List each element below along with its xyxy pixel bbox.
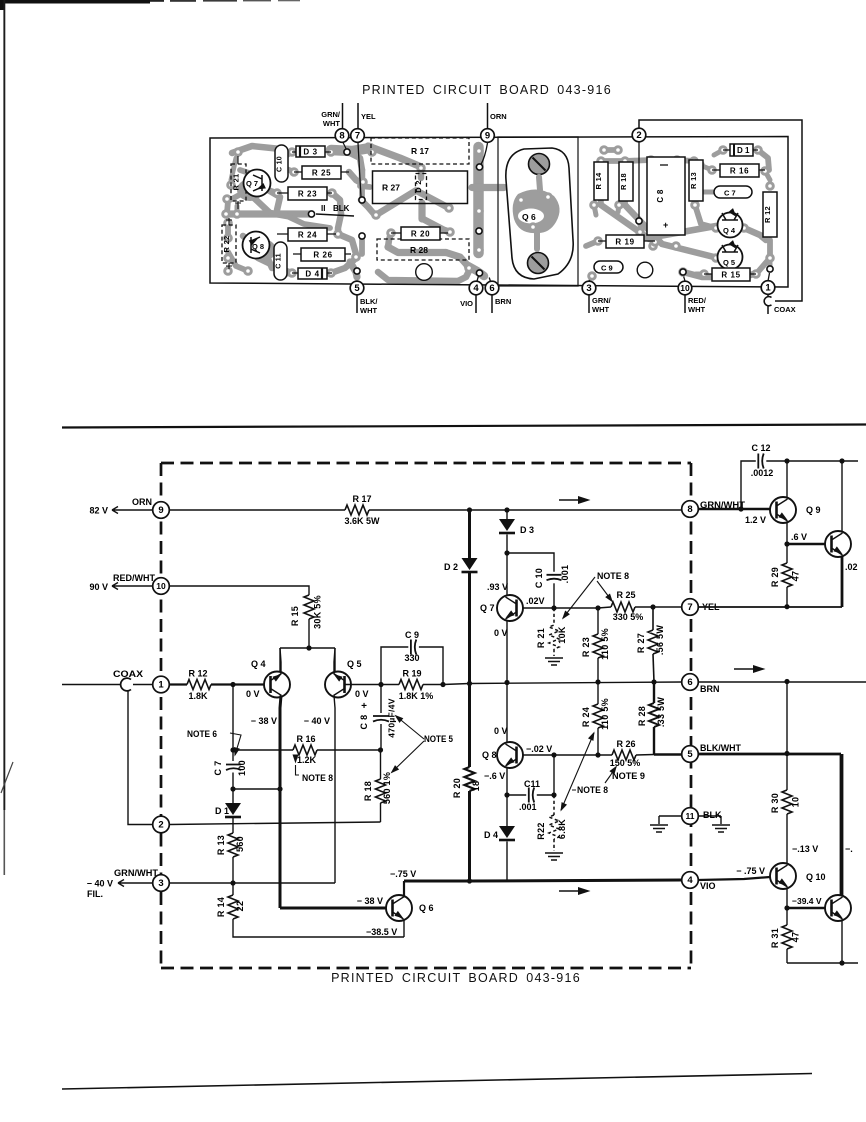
svg-text:R 23: R 23 — [298, 190, 317, 199]
svg-text:NOTE 8: NOTE 8 — [597, 571, 629, 581]
resistor R25 (pcb) — [302, 166, 341, 179]
Q6 screw bottom — [528, 253, 549, 274]
svg-text:− 38 V: − 38 V — [357, 896, 383, 906]
svg-text:NOTE 5: NOTE 5 — [424, 734, 453, 744]
svg-text:82 V: 82 V — [89, 506, 108, 516]
svg-text:BLK/: BLK/ — [360, 297, 378, 306]
capacitor C9 (pcb) — [594, 261, 623, 273]
svg-text:GRN/WHT: GRN/WHT — [114, 868, 159, 878]
svg-text:R 18: R 18 — [363, 781, 373, 801]
svg-text:560: 560 — [235, 836, 245, 852]
wire node3 row — [169, 882, 335, 884]
transistor Q4 — [264, 672, 290, 698]
flow arrow upper — [559, 499, 578, 501]
box R19 (pcb) — [606, 235, 644, 248]
diode D1 — [232, 789, 234, 803]
svg-text:Q 6: Q 6 — [419, 903, 434, 913]
svg-text:− .75 V: − .75 V — [736, 866, 765, 876]
node 9 — [153, 502, 170, 519]
svg-text:YEL: YEL — [361, 112, 376, 121]
svg-text:NOTE 6: NOTE 6 — [187, 729, 217, 739]
svg-text:D 3: D 3 — [303, 148, 317, 157]
svg-text:R 31: R 31 — [770, 928, 780, 948]
wire node9 stub ORN (pcb) — [487, 103, 489, 129]
svg-text:Q 7: Q 7 — [480, 603, 495, 613]
svg-text:BLK: BLK — [703, 810, 722, 820]
svg-text:R 20: R 20 — [452, 778, 462, 798]
wire C11 to base row — [553, 755, 555, 795]
svg-text:.001: .001 — [519, 802, 537, 812]
svg-text:WHT: WHT — [592, 305, 609, 314]
dashed box R28 (pcb) — [377, 239, 469, 260]
svg-text:18: 18 — [471, 781, 481, 792]
svg-text:.02V: .02V — [526, 596, 545, 606]
svg-text:−.13 V: −.13 V — [792, 844, 818, 854]
svg-text:FIL.: FIL. — [87, 889, 103, 899]
wire Q8 emitter down — [506, 768, 508, 795]
wire T4 emitter — [841, 921, 843, 963]
junction dots on ORN row — [467, 507, 472, 512]
Q6 heatsink plate — [498, 137, 578, 286]
resistor R26 (pcb) — [301, 248, 345, 261]
svg-text:Q 5: Q 5 — [347, 659, 362, 669]
wire RED/WHT to R15 — [169, 586, 309, 595]
resistor R23 — [597, 608, 599, 634]
svg-text:PRINTED CIRCUIT BOARD 043-916: PRINTED CIRCUIT BOARD 043-916 — [331, 971, 581, 985]
svg-text:NOTE 9: NOTE 9 — [612, 771, 645, 781]
svg-text:R 18: R 18 — [619, 173, 628, 190]
svg-text:47: 47 — [791, 571, 801, 582]
diode D2 — [462, 558, 478, 570]
box D1 (pcb) — [730, 144, 753, 156]
wire 90V stub — [112, 583, 153, 590]
resistor R24 — [597, 682, 599, 704]
wire Q10 emitter — [786, 889, 788, 908]
svg-text:D 2: D 2 — [414, 180, 423, 193]
wire Q7 emitter down to BRN — [506, 621, 508, 683]
svg-text:Q 9: Q 9 — [806, 505, 821, 515]
svg-text:R 13: R 13 — [689, 172, 698, 189]
svg-text:WHT: WHT — [688, 305, 705, 314]
svg-text:D 3: D 3 — [520, 525, 534, 535]
svg-text:.93 V: .93 V — [487, 582, 508, 592]
node 2 pcb lead into board — [638, 142, 640, 218]
svg-text:.33 5W: .33 5W — [656, 697, 666, 728]
resistor R19 — [399, 680, 423, 690]
wire bottom emitter rail — [787, 962, 858, 964]
wire Q10 emitter to T4 base — [787, 907, 825, 909]
svg-text:10: 10 — [156, 581, 166, 591]
resistor R20 — [465, 767, 475, 791]
svg-text:Q 10: Q 10 — [806, 872, 826, 882]
capacitor C11 (pcb) — [274, 242, 287, 280]
svg-text:.56 5W: .56 5W — [655, 625, 665, 656]
wire node8 stub (pcb) — [342, 103, 344, 129]
svg-text:3: 3 — [158, 878, 163, 889]
wire 82V stub — [112, 507, 153, 514]
ground below R21 — [545, 658, 563, 665]
node 3 — [153, 875, 170, 892]
svg-text:R 16: R 16 — [730, 167, 749, 176]
node 4 lead — [476, 275, 479, 287]
svg-text:NOTE 8: NOTE 8 — [577, 785, 608, 795]
svg-text:R 20: R 20 — [411, 230, 430, 239]
dashed resistor R22 — [553, 795, 555, 815]
node7 lead into board — [358, 143, 361, 197]
svg-text:5: 5 — [687, 749, 693, 760]
svg-text:− 38 V: − 38 V — [251, 716, 277, 726]
svg-text:C 8: C 8 — [359, 715, 369, 730]
transistor Q7 — [497, 595, 523, 621]
wire Q8 collector up to BRN — [506, 683, 508, 743]
wire -40V FIL stub — [118, 880, 153, 887]
resistor R29 — [786, 544, 788, 563]
svg-text:C 7: C 7 — [724, 189, 736, 198]
node 4 — [682, 872, 699, 889]
box R16 (pcb) — [720, 164, 759, 177]
resistor R24 (pcb) — [288, 228, 327, 241]
svg-text:+: + — [663, 220, 668, 230]
svg-text:R 25: R 25 — [312, 169, 331, 178]
svg-text:D 4: D 4 — [305, 270, 319, 279]
svg-text:C 10: C 10 — [277, 156, 284, 172]
capacitor C7 — [226, 765, 241, 771]
wire node7 stub YEL (pcb) — [357, 103, 359, 129]
node 2 — [153, 816, 170, 833]
diode D3 — [506, 510, 508, 519]
transistor T2 upper follower — [825, 531, 851, 557]
wire BRN right segment — [698, 681, 866, 683]
wire coax input — [62, 684, 121, 686]
svg-text:+: + — [361, 701, 367, 712]
note 8 bracket (R16) — [296, 765, 300, 775]
svg-text:C 7: C 7 — [213, 761, 223, 776]
svg-text:.001: .001 — [560, 565, 570, 584]
wire C7 bottom to Q4 collector column — [233, 788, 280, 790]
svg-text:7: 7 — [355, 131, 360, 142]
wire T2 collector — [841, 461, 843, 531]
top rule — [62, 425, 866, 428]
diode D4 — [506, 795, 508, 826]
svg-text:.02: .02 — [845, 562, 858, 572]
node 9 lead into board — [481, 143, 488, 166]
svg-text:Q 8: Q 8 — [482, 750, 497, 760]
wire Q6 emitter down — [403, 920, 405, 938]
box R14 (pcb) — [594, 162, 608, 200]
svg-text:D 4: D 4 — [484, 830, 498, 840]
svg-text:1.2 V: 1.2 V — [745, 515, 766, 525]
wire node4 to Q10 base — [698, 877, 770, 880]
transistor Q4 (pcb) — [718, 213, 743, 238]
wire ORN row right of R17 — [369, 509, 682, 511]
svg-text:WHT: WHT — [323, 119, 340, 128]
svg-text:BRN: BRN — [495, 297, 511, 306]
capacitor C10 branch — [507, 553, 554, 572]
svg-text:1.8K 1%: 1.8K 1% — [399, 691, 434, 701]
svg-text:NOTE 8: NOTE 8 — [302, 773, 333, 783]
svg-text:C 8: C 8 — [656, 189, 665, 203]
transistor Q10 — [770, 863, 796, 889]
node 11 — [659, 816, 721, 824]
svg-text:RED/WHT: RED/WHT — [113, 573, 155, 583]
svg-text:D 1: D 1 — [215, 806, 229, 816]
svg-text:330: 330 — [404, 653, 419, 663]
svg-text:R 21: R 21 — [536, 628, 546, 648]
box R18 (pcb) — [619, 162, 633, 201]
svg-text:2: 2 — [158, 820, 163, 831]
flow arrow mid — [734, 668, 753, 670]
white hole left — [416, 264, 433, 281]
svg-text:Q 4: Q 4 — [723, 226, 736, 235]
wire GRN/WHT to Q9 base — [698, 508, 770, 510]
svg-text:C11: C11 — [524, 779, 540, 789]
svg-text:10: 10 — [791, 797, 801, 808]
svg-text:RED/: RED/ — [688, 296, 707, 305]
transistor Q8 (pcb) — [243, 232, 270, 259]
capacitor C11 — [507, 794, 526, 796]
svg-text:560 1%: 560 1% — [382, 772, 392, 804]
svg-text:−39.4 V: −39.4 V — [792, 896, 822, 906]
svg-text:−.6 V: −.6 V — [484, 771, 505, 781]
svg-text:R 23: R 23 — [581, 637, 591, 657]
svg-text:1: 1 — [765, 283, 771, 294]
resistor R17 — [345, 505, 369, 515]
svg-text:7: 7 — [687, 602, 692, 613]
svg-text:−.02 V: −.02 V — [526, 744, 552, 754]
svg-text:−.: −. — [845, 844, 853, 854]
svg-text:4: 4 — [473, 283, 479, 294]
capacitor C12 — [741, 461, 756, 509]
svg-text:0 V: 0 V — [246, 689, 260, 699]
svg-text:47: 47 — [791, 932, 801, 943]
svg-text:.6 V: .6 V — [791, 532, 807, 542]
svg-text:9: 9 — [158, 505, 163, 516]
Q6 screw top — [529, 154, 550, 175]
svg-text:R 24: R 24 — [298, 231, 317, 240]
ground below R22 — [545, 853, 563, 860]
wire hook to node1 — [133, 684, 153, 686]
svg-text:COAX: COAX — [774, 305, 796, 314]
svg-text:R 22: R 22 — [222, 235, 231, 252]
svg-text:Q 7: Q 7 — [246, 179, 258, 188]
transistor T4 lower follower — [825, 895, 851, 921]
PCB pads — [235, 149, 242, 156]
svg-text:0 V: 0 V — [494, 628, 508, 638]
wire T4 collector — [841, 754, 844, 895]
svg-text:WHT: WHT — [360, 306, 377, 315]
svg-text:R 26: R 26 — [616, 739, 635, 749]
resistor R27 — [652, 607, 654, 630]
transistor Q9 — [770, 497, 796, 523]
Q6 inner copper — [513, 189, 560, 233]
svg-text:100: 100 — [237, 760, 247, 776]
wire R28 col to node5 (thick) — [654, 753, 682, 756]
transistor Q5 — [325, 672, 351, 698]
wire thick column top — [468, 510, 471, 558]
svg-text:R 21: R 21 — [232, 173, 241, 190]
resistor R28 — [653, 682, 655, 703]
svg-text:6.8K: 6.8K — [557, 819, 567, 839]
wire VIO row — [404, 880, 682, 881]
resistor R14 — [232, 883, 234, 895]
svg-text:− 40 V: − 40 V — [87, 879, 113, 889]
Q7 gray blob — [237, 179, 263, 201]
dashed box R17 (pcb) — [371, 138, 469, 164]
node 5 — [682, 746, 699, 763]
node1 stub + COAX hook (pcb) — [767, 295, 769, 297]
wire row to node 6 — [443, 682, 682, 685]
node 10 — [153, 578, 170, 595]
svg-text:R 12: R 12 — [763, 206, 772, 223]
svg-text:1: 1 — [158, 680, 164, 691]
svg-text:C 9: C 9 — [601, 264, 613, 273]
wire BRN col to R30 — [786, 682, 788, 753]
resistor R15 — [304, 595, 314, 619]
svg-text:11: 11 — [686, 811, 695, 821]
resistor R25 — [611, 602, 635, 612]
svg-text:R 17: R 17 — [411, 146, 429, 156]
black ring pads — [344, 149, 350, 155]
capacitor C8 electrolytic — [380, 685, 382, 714]
node 10 lead — [684, 276, 686, 281]
wire Q6 collector up to VIO row — [403, 881, 405, 898]
capacitor C10 (pcb) — [275, 145, 288, 182]
svg-text:PRINTED CIRCUIT BOARD 043-916: PRINTED CIRCUIT BOARD 043-916 — [362, 83, 612, 97]
wire node5 stub (pcb) — [356, 295, 358, 313]
wire Q4 collector down (thick) — [280, 696, 281, 909]
svg-text:6: 6 — [489, 283, 494, 294]
svg-text:C 9: C 9 — [405, 630, 419, 640]
wire Q9 collector — [786, 461, 788, 497]
svg-text:4: 4 — [687, 875, 693, 886]
capacitor C7 (pcb) — [714, 186, 752, 198]
svg-text:BRN: BRN — [700, 684, 720, 694]
svg-text:R 15: R 15 — [721, 271, 740, 280]
svg-text:VIO: VIO — [700, 881, 716, 891]
scan artifact: top-left black band — [0, 0, 150, 4]
svg-text:− 40 V: − 40 V — [304, 716, 330, 726]
svg-text:1.8K: 1.8K — [188, 691, 208, 701]
pcb node circles — [335, 129, 349, 143]
wire node6 stub BRN (pcb) — [491, 295, 493, 313]
svg-text:R 19: R 19 — [615, 238, 634, 247]
scan artifact: diagonal slash — [1, 762, 13, 793]
wire node1 to R12 — [169, 683, 187, 685]
svg-text:8: 8 — [339, 131, 344, 142]
white hole right — [637, 262, 653, 278]
svg-text:R 14: R 14 — [594, 172, 603, 190]
component boxes: D3 — [296, 146, 325, 157]
capacitor C9 branch — [381, 647, 443, 685]
wire base row to C7 — [230, 682, 235, 687]
wire node4 stub VIO (pcb) — [475, 295, 477, 313]
svg-text:C 11: C 11 — [276, 253, 283, 269]
wire R12 to Q4 base — [211, 683, 264, 685]
diode D4 (pcb) — [298, 268, 327, 279]
coax hook — [121, 678, 131, 691]
wire BLKWHT row right — [698, 754, 841, 895]
wire Q9 emitter — [786, 523, 788, 544]
wire Q8 base row to node 5 — [523, 754, 598, 756]
scan artifact: left edge line — [3, 0, 5, 810]
bottom rule — [62, 1074, 812, 1090]
resistor R12 — [187, 680, 211, 690]
resistor R23 (pcb) — [288, 187, 327, 200]
svg-text:BLK/WHT: BLK/WHT — [700, 743, 741, 753]
resistor R30 — [786, 754, 788, 791]
node9 vertical gray band — [473, 147, 484, 253]
svg-text:5: 5 — [354, 283, 360, 294]
svg-text:90 V: 90 V — [89, 582, 108, 592]
svg-text:2: 2 — [636, 130, 641, 141]
svg-text:C 10: C 10 — [534, 568, 544, 588]
svg-text:Q 4: Q 4 — [251, 659, 266, 669]
svg-text:0 V: 0 V — [494, 726, 508, 736]
svg-text:.0012: .0012 — [751, 468, 774, 478]
svg-text:R 26: R 26 — [313, 251, 332, 260]
svg-text:9: 9 — [485, 131, 490, 142]
svg-text:BLK: BLK — [333, 204, 350, 213]
svg-text:R 19: R 19 — [402, 669, 421, 679]
box C8 (pcb) — [647, 157, 685, 235]
box R13 (pcb) — [689, 160, 703, 201]
wire node3 stub (pcb) — [588, 295, 590, 313]
node 1 lead — [768, 273, 770, 281]
svg-text:R 15: R 15 — [290, 606, 300, 626]
resistor R18 — [380, 750, 382, 779]
svg-text:10K: 10K — [557, 626, 567, 644]
svg-text:10: 10 — [680, 283, 690, 293]
svg-text:30K 5%: 30K 5% — [313, 595, 323, 629]
svg-text:R 14: R 14 — [216, 897, 226, 917]
node 1 — [153, 676, 170, 693]
PCB board outline — [210, 137, 788, 288]
svg-text:R 28: R 28 — [637, 706, 647, 726]
box R27 (pcb) — [373, 171, 468, 204]
svg-text:−38.5 V: −38.5 V — [366, 927, 397, 937]
wire Q9 emitter to T2 base — [787, 543, 825, 545]
svg-text:R 27: R 27 — [636, 633, 646, 653]
flow arrow lower — [559, 890, 578, 892]
wire Q7 collector up to D3 — [506, 553, 508, 595]
node 3 small lead — [589, 277, 591, 281]
outer wire node2 loop — [639, 120, 802, 301]
wire Q4/Q5 collector rail — [280, 648, 335, 671]
svg-text:330 5%: 330 5% — [613, 612, 644, 622]
resistor R16 — [233, 749, 381, 751]
resistor R31 — [786, 908, 788, 925]
Q8 gray blob — [250, 239, 276, 261]
svg-text:150 5%: 150 5% — [610, 758, 641, 768]
wire Q5 collector down — [334, 696, 335, 884]
dashed resistor R21 (pcb) — [231, 164, 246, 201]
svg-text:R 16: R 16 — [296, 734, 315, 744]
transistor Q8 — [497, 742, 523, 768]
box R15 (pcb) — [712, 268, 750, 281]
svg-text:470µF/4V: 470µF/4V — [387, 698, 397, 737]
svg-text:1.2K: 1.2K — [297, 755, 317, 765]
svg-text:D 1: D 1 — [737, 146, 750, 155]
node 6 lead — [489, 278, 492, 287]
svg-text:R 30: R 30 — [770, 793, 780, 813]
PCB copper traces — [232, 146, 281, 153]
svg-text:C 12: C 12 — [751, 443, 770, 453]
svg-text:VIO: VIO — [460, 299, 473, 308]
svg-text:R 12: R 12 — [188, 669, 207, 679]
svg-text:ORN: ORN — [490, 112, 507, 121]
wire R15 bottom to rail — [308, 619, 310, 648]
resistor R13 — [232, 823, 234, 833]
